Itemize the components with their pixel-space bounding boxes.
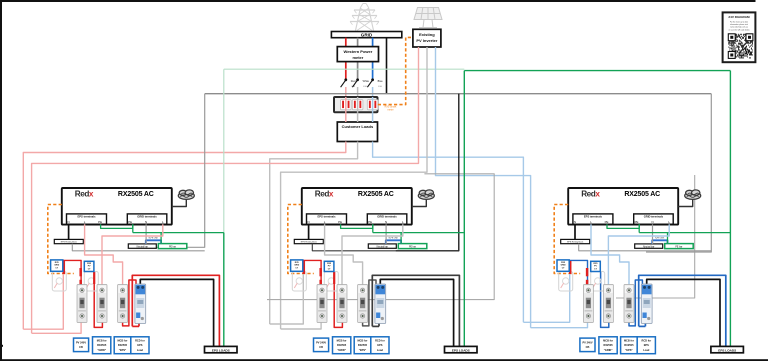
svg-text:N: N <box>308 220 310 224</box>
svg-text:RCD for: RCD for <box>375 338 385 342</box>
svg-text:meter: meter <box>352 55 363 60</box>
svg-text:MCB for: MCB for <box>118 338 128 342</box>
svg-text:MCB for: MCB for <box>337 338 347 342</box>
svg-text:N-PE LINK: N-PE LINK <box>389 237 399 239</box>
svg-text:Redx: Redx <box>75 189 94 198</box>
svg-text:PV Inverter: PV Inverter <box>416 38 438 43</box>
svg-text:PE bar: PE bar <box>409 246 416 249</box>
svg-text:PE: PE <box>128 220 132 224</box>
svg-text:N: N <box>145 220 147 224</box>
svg-text:RX2505: RX2505 <box>603 343 613 347</box>
svg-text:N-PE LINK: N-PE LINK <box>149 237 159 239</box>
svg-text:"GRID": "GRID" <box>604 348 614 352</box>
svg-text:PE: PE <box>338 220 342 224</box>
svg-text:EPS terminals: EPS terminals <box>77 215 96 219</box>
svg-text:CB: CB <box>586 345 590 349</box>
svg-text:PV 240V: PV 240V <box>316 340 326 344</box>
svg-text:RX2505: RX2505 <box>118 343 128 347</box>
svg-text:PV 240V: PV 240V <box>582 340 592 344</box>
svg-text:"EPS": "EPS" <box>119 348 127 352</box>
svg-text:PE: PE <box>635 220 639 224</box>
svg-text:N-PE LINK: N-PE LINK <box>655 237 665 239</box>
svg-text:EPS: EPS <box>137 343 142 347</box>
svg-text:EPS Henley block: EPS Henley block <box>61 242 77 244</box>
svg-text:N: N <box>574 220 576 224</box>
svg-text:EPS Henley block: EPS Henley block <box>567 242 583 244</box>
svg-text:"GRID": "GRID" <box>97 348 107 352</box>
svg-text:GRID terminals: GRID terminals <box>137 215 157 219</box>
svg-text:MCB for: MCB for <box>97 338 107 342</box>
svg-text:N: N <box>651 220 653 224</box>
svg-text:GRID terminals: GRID terminals <box>644 215 664 219</box>
svg-text:N: N <box>68 220 70 224</box>
svg-text:GRID: GRID <box>561 265 567 267</box>
svg-text:N: N <box>385 220 387 224</box>
svg-text:PE: PE <box>98 220 102 224</box>
svg-text:GRID terminals: GRID terminals <box>377 215 397 219</box>
svg-text:RX2505 AC: RX2505 AC <box>118 191 154 198</box>
svg-text:MCB for: MCB for <box>358 338 368 342</box>
svg-text:EPS LOADS: EPS LOADS <box>212 349 230 353</box>
svg-text:EPS LOADS: EPS LOADS <box>452 349 470 353</box>
svg-text:RX2505 AC: RX2505 AC <box>624 191 660 198</box>
svg-text:PE bar: PE bar <box>675 246 682 249</box>
svg-text:"EPS": "EPS" <box>359 348 367 352</box>
svg-text:CB: CB <box>319 345 323 349</box>
svg-text:RCD for: RCD for <box>135 338 145 342</box>
svg-text:Neutral bar: Neutral bar <box>377 245 389 248</box>
svg-text:EPS terminals: EPS terminals <box>584 215 603 219</box>
svg-text:"GRID": "GRID" <box>337 348 347 352</box>
svg-text:Neutral bar: Neutral bar <box>643 245 655 248</box>
svg-text:www.redx.help.com.au: www.redx.help.com.au <box>730 26 748 29</box>
svg-text:Blue: Blue <box>378 80 384 83</box>
svg-text:"EPS": "EPS" <box>625 348 633 352</box>
svg-text:PE: PE <box>368 220 372 224</box>
svg-text:Redx: Redx <box>581 189 600 198</box>
svg-text:RX2505: RX2505 <box>358 343 368 347</box>
svg-text:Neutral bar: Neutral bar <box>137 245 149 248</box>
svg-text:Customer Loads: Customer Loads <box>342 124 374 129</box>
svg-text:GRID: GRID <box>54 265 60 267</box>
svg-text:EPS: EPS <box>644 343 649 347</box>
svg-text:RCD for: RCD for <box>641 338 651 342</box>
svg-text:24V DIAGRAM: 24V DIAGRAM <box>728 15 750 19</box>
svg-text:White: White <box>363 80 370 83</box>
svg-text:Load: Load <box>643 348 650 352</box>
svg-text:meter: meter <box>387 109 393 112</box>
svg-text:EPS LOADS: EPS LOADS <box>718 349 736 353</box>
svg-text:Load: Load <box>137 348 144 352</box>
svg-text:Western Power: Western Power <box>343 49 372 54</box>
svg-text:GRID: GRID <box>361 33 373 38</box>
svg-text:RX2505: RX2505 <box>337 343 347 347</box>
svg-text:EPS Henley block: EPS Henley block <box>301 242 317 244</box>
svg-text:Load: Load <box>377 348 384 352</box>
svg-text:CB: CB <box>79 345 83 349</box>
svg-text:For the most up to date: For the most up to date <box>730 21 748 24</box>
svg-text:RX2505: RX2505 <box>624 343 634 347</box>
svg-text:MCB for: MCB for <box>603 338 613 342</box>
svg-text:PE: PE <box>605 220 609 224</box>
svg-text:PE bar: PE bar <box>169 246 176 249</box>
svg-text:EPS terminals: EPS terminals <box>317 215 336 219</box>
svg-text:Existing: Existing <box>419 32 435 37</box>
svg-text:PV 240V: PV 240V <box>76 340 86 344</box>
svg-text:RX2505 AC: RX2505 AC <box>358 191 394 198</box>
svg-text:MCB for: MCB for <box>624 338 634 342</box>
svg-text:Redx: Redx <box>315 189 334 198</box>
svg-text:or scan the QR code below: or scan the QR code below <box>728 28 750 31</box>
svg-text:EPS: EPS <box>377 343 382 347</box>
svg-text:GRID: GRID <box>294 265 300 267</box>
svg-text:RX2505: RX2505 <box>97 343 107 347</box>
